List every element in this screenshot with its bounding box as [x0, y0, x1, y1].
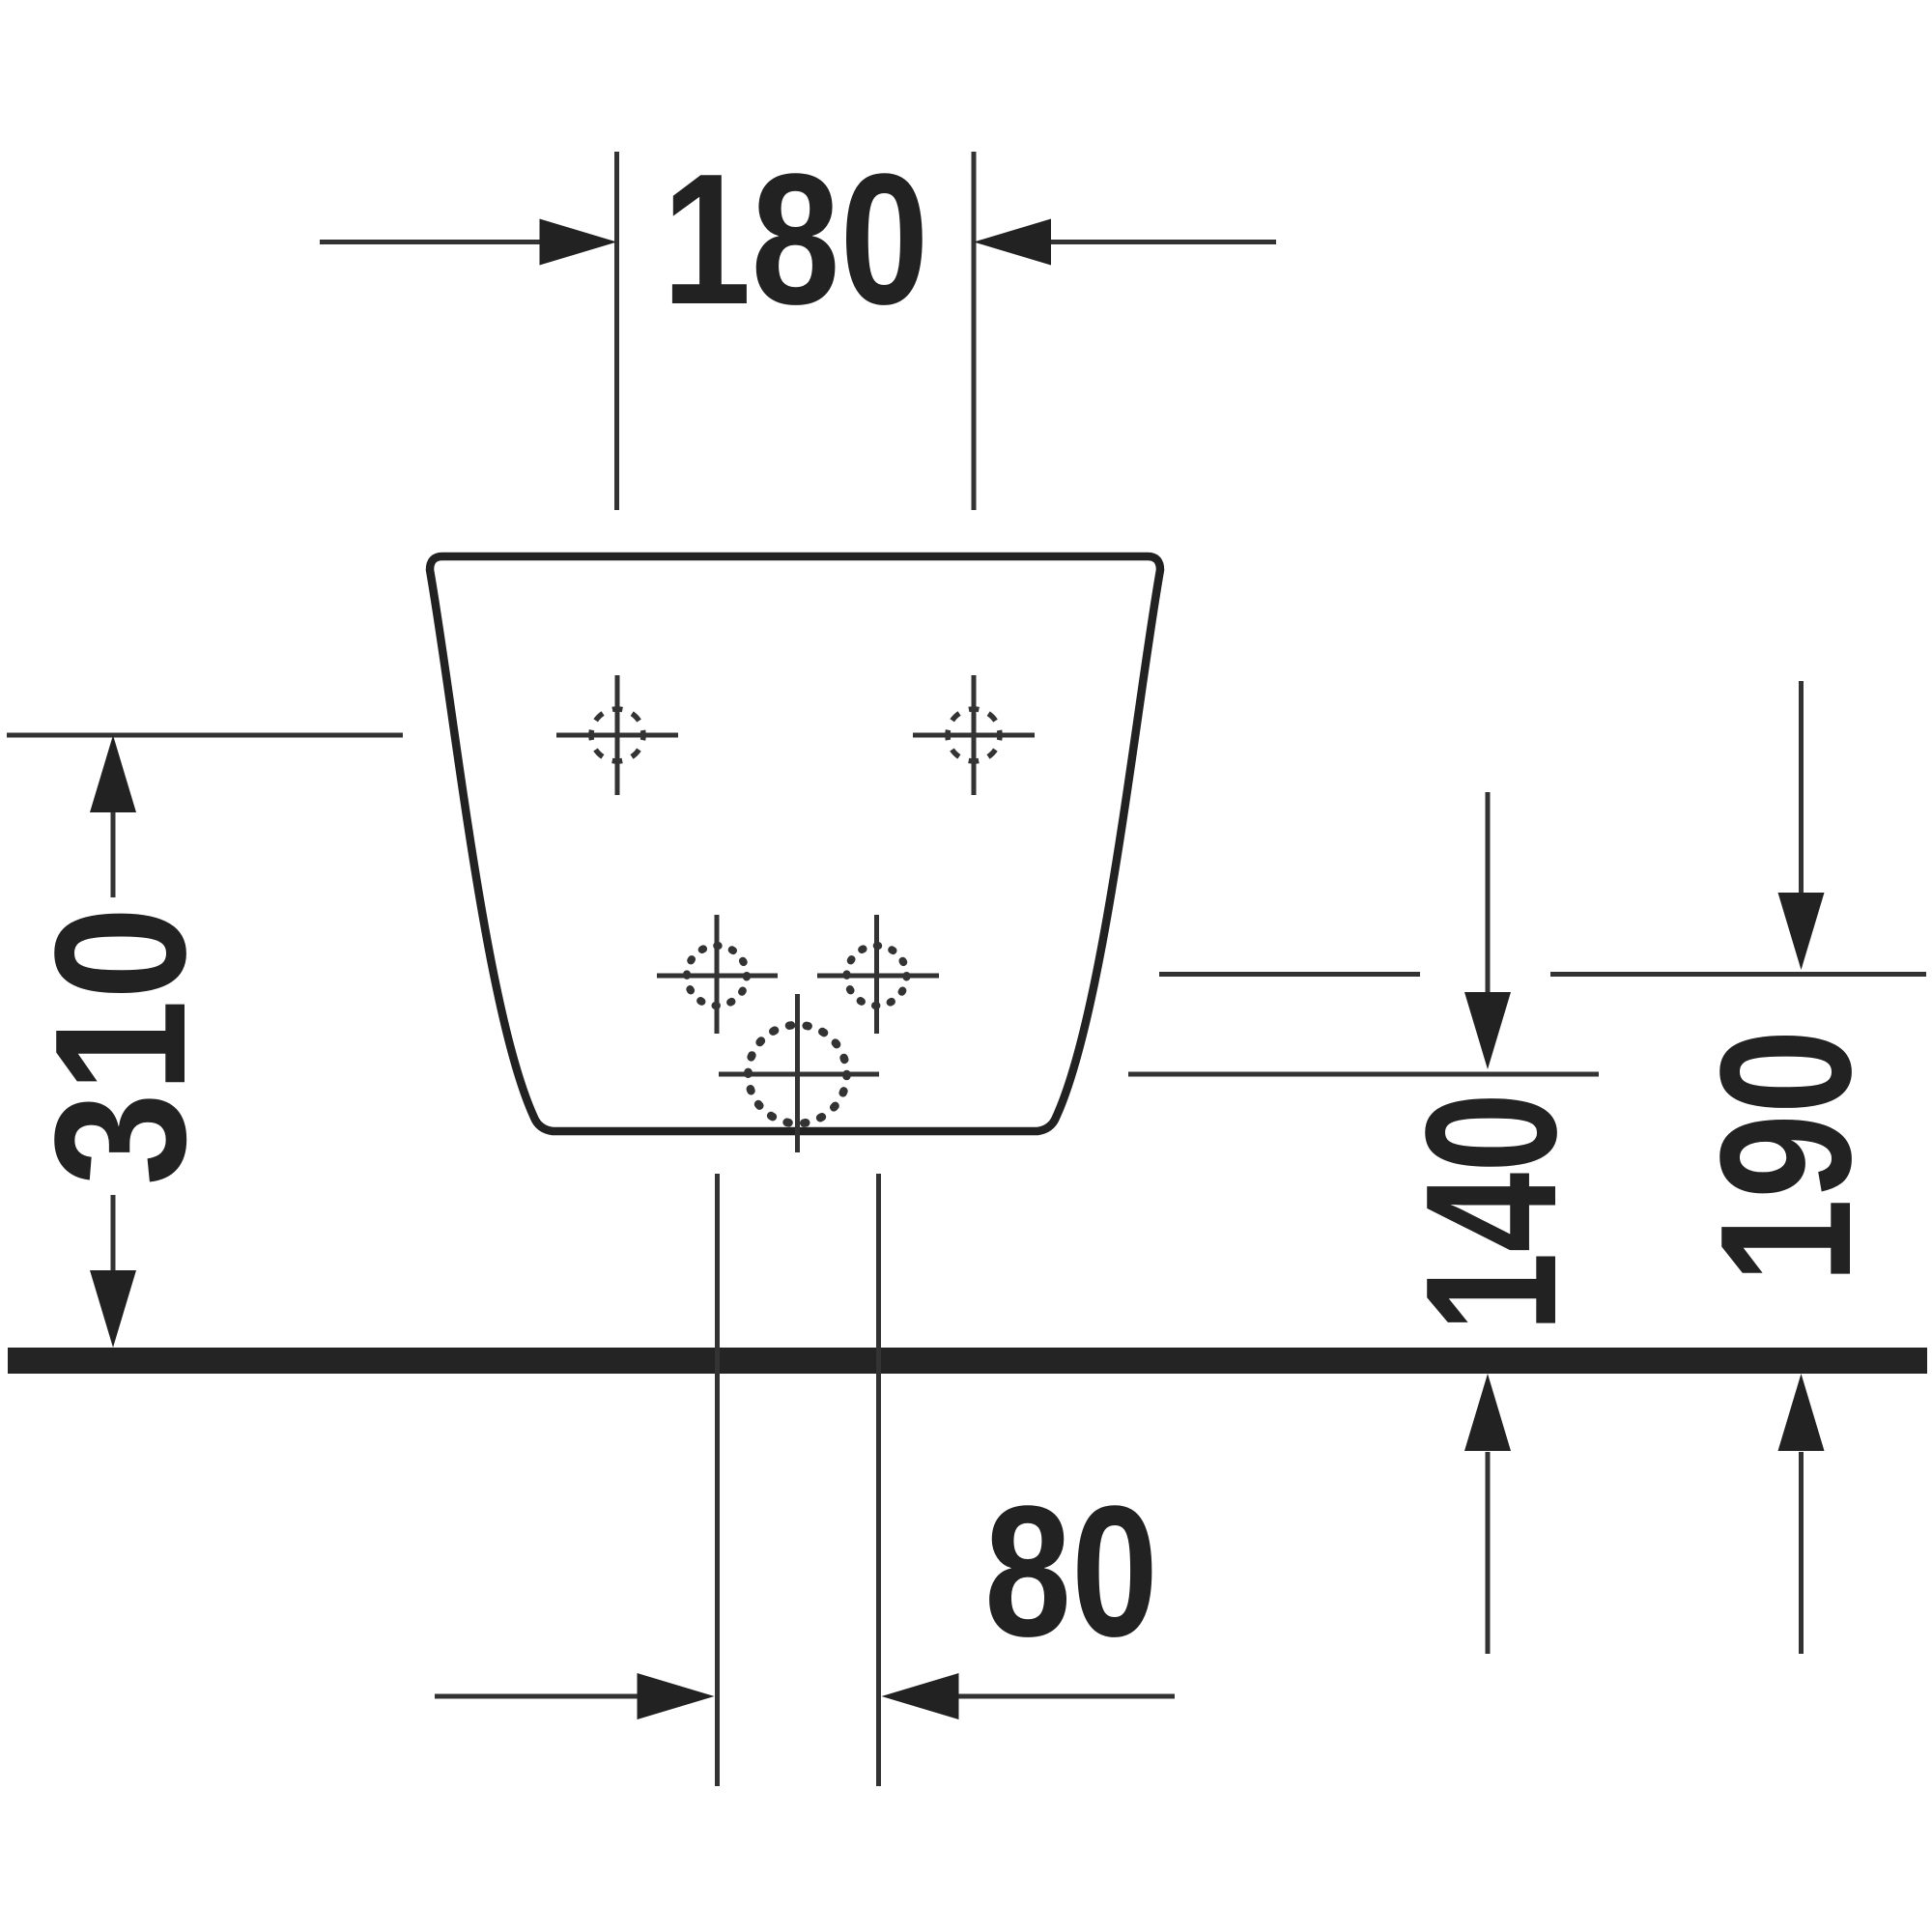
svg-text:190: 190: [1681, 1030, 1889, 1284]
svg-text:180: 180: [663, 134, 929, 343]
svg-text:310: 310: [15, 907, 224, 1186]
svg-text:80: 80: [984, 1466, 1158, 1675]
svg-text:140: 140: [1386, 1093, 1595, 1332]
